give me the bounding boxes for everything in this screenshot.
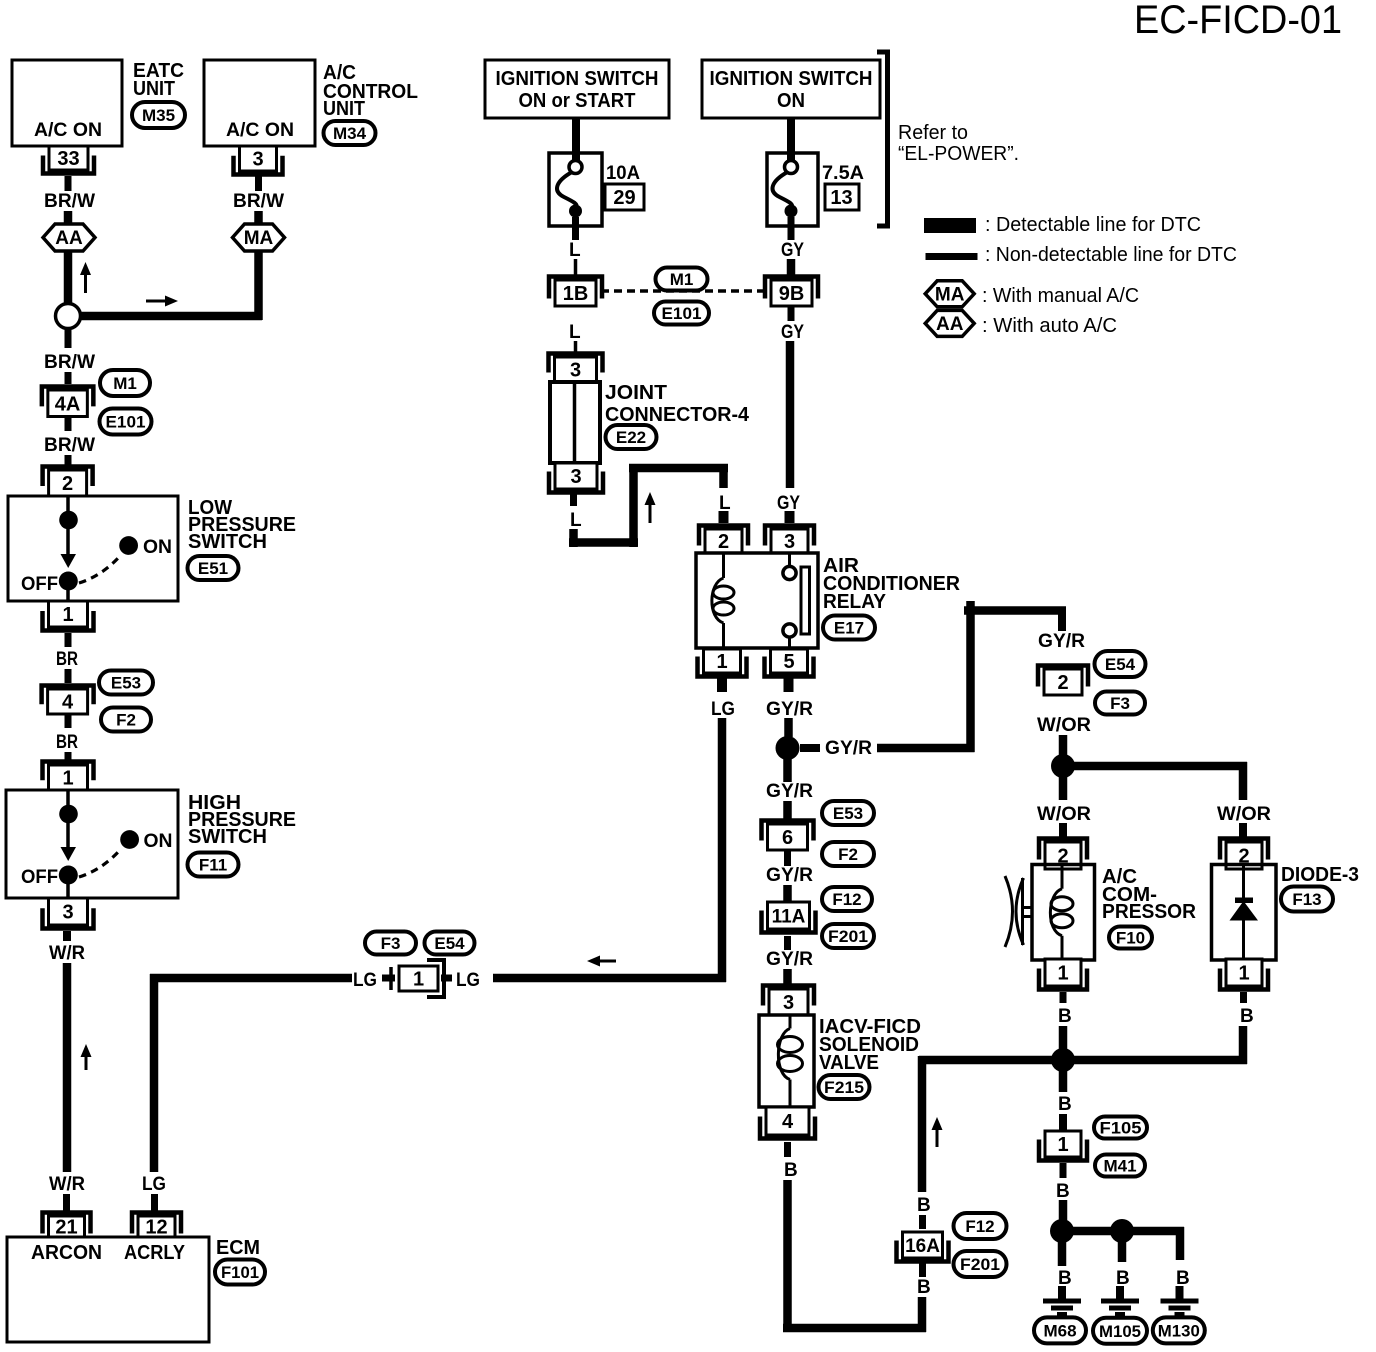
oval F3 (W/OR column) — [1095, 692, 1145, 715]
arrow right on splice wire — [146, 296, 178, 307]
wire BR to 4 — [65, 669, 72, 683]
wire L thin to 1B — [574, 259, 578, 277]
svg-text:E54: E54 — [434, 934, 465, 953]
connector 6 (E53/F2) — [762, 821, 814, 851]
unit ECM box — [7, 1237, 209, 1342]
oval F2 (at 6) — [822, 842, 874, 866]
svg-text:: With auto A/C: : With auto A/C — [982, 315, 1117, 337]
wire stub below relay pin 5 — [784, 676, 794, 692]
svg-text:13: 13 — [830, 187, 852, 209]
label GY/R (below pin 5) — [766, 699, 813, 720]
label BR/W (above LPS) — [44, 435, 95, 456]
wire W/OR diode branch down — [1239, 762, 1248, 800]
label GY/R (E54 column) — [1038, 631, 1085, 652]
oval E101 (dashed link) — [654, 302, 709, 325]
connector 1 (F105/M41) — [1039, 1131, 1087, 1161]
svg-text:3: 3 — [252, 149, 263, 171]
svg-text:GY: GY — [781, 322, 804, 343]
connector 12 (ECM ACRLY) — [132, 1213, 181, 1239]
label L (below 1B) — [569, 322, 581, 343]
svg-text:UNIT: UNIT — [133, 78, 175, 100]
wire GY long — [786, 341, 795, 488]
unit EATC UNIT box — [12, 60, 122, 146]
svg-text:29: 29 — [613, 187, 635, 209]
oval F11 — [188, 853, 239, 877]
svg-text:L: L — [569, 322, 581, 343]
svg-text:BR/W: BR/W — [44, 191, 95, 212]
svg-text:BR/W: BR/W — [44, 435, 95, 456]
label GY/R (above IACV) — [766, 949, 813, 970]
fuse number 29 box — [605, 184, 644, 210]
wire B below bus dot — [1059, 1070, 1068, 1092]
relay pin 3 connector — [765, 526, 814, 554]
wire LG horizontal right — [493, 974, 726, 983]
IACV coil — [778, 1015, 803, 1107]
oval M68 — [1034, 1317, 1086, 1343]
wire ground column 3 down — [1176, 1227, 1185, 1260]
svg-text:M68: M68 — [1043, 1321, 1076, 1340]
fuse number 13 box — [825, 184, 859, 210]
ground symbol M68 — [1043, 1286, 1081, 1314]
svg-text:M105: M105 — [1099, 1322, 1141, 1341]
svg-text:B: B — [784, 1160, 798, 1181]
svg-text:LG: LG — [456, 970, 480, 991]
wire L thin to joint connector — [574, 341, 578, 356]
wire W/OR below dot — [1059, 776, 1068, 800]
connector 1 (compressor) — [1039, 959, 1087, 990]
label W/R (lower) — [49, 1174, 85, 1195]
wire BR below 4 — [65, 714, 72, 728]
wire ground column 2 down — [1118, 1241, 1127, 1262]
wire B stub to F105 connector — [1059, 1114, 1067, 1132]
svg-text:W/OR: W/OR — [1037, 715, 1091, 736]
svg-text:E22: E22 — [616, 428, 646, 447]
svg-text:A/C ON: A/C ON — [34, 120, 102, 141]
svg-text:LG: LG — [142, 1174, 166, 1195]
oval M34 — [324, 121, 376, 145]
node B bus dot — [1051, 1048, 1075, 1072]
note Refer to EL-POWER — [898, 122, 1019, 165]
fuse 10A box — [549, 153, 602, 226]
svg-text:RELAY: RELAY — [823, 591, 887, 613]
oval M1 (dashed link) — [656, 268, 708, 291]
svg-text:SWITCH: SWITCH — [188, 826, 267, 848]
svg-text:L: L — [719, 493, 731, 514]
label LG (above 12) — [142, 1174, 166, 1195]
svg-text:“EL-POWER”.: “EL-POWER”. — [898, 143, 1019, 165]
wire B 16A column upper — [918, 1056, 927, 1192]
wire stub right of link connector — [441, 975, 452, 982]
svg-text:BR/W: BR/W — [233, 191, 284, 212]
svg-text:4A: 4A — [55, 393, 81, 415]
svg-text:M35: M35 — [142, 106, 175, 125]
label B (ground 2) — [1116, 1268, 1130, 1289]
wire to connector 2 — [65, 455, 72, 467]
wire below fuse 29 — [572, 217, 579, 240]
oval F105 — [1094, 1117, 1147, 1139]
svg-text:IGNITION SWITCH: IGNITION SWITCH — [710, 68, 873, 90]
svg-text:IGNITION SWITCH: IGNITION SWITCH — [496, 68, 659, 90]
svg-text:F10: F10 — [1116, 928, 1145, 947]
svg-text:SWITCH: SWITCH — [188, 531, 267, 553]
legend non-detectable text — [985, 244, 1237, 266]
arrow up (W/R) — [81, 1044, 92, 1070]
arrow up (B column) — [932, 1117, 943, 1147]
component LOW PRESSURE SWITCH box — [8, 496, 178, 601]
svg-text:21: 21 — [55, 1217, 77, 1239]
svg-text:M1: M1 — [670, 270, 694, 289]
oval E101 (at 4A) — [100, 409, 152, 435]
wire B diode to bus — [1239, 1026, 1248, 1064]
svg-text:4: 4 — [62, 692, 74, 714]
svg-text:F2: F2 — [116, 710, 136, 729]
svg-text:BR: BR — [56, 732, 78, 753]
label 7.5A — [822, 163, 864, 184]
wire L route down to pin 2 — [719, 464, 728, 488]
compressor body — [1032, 865, 1095, 961]
oval M105 — [1093, 1318, 1147, 1344]
label ON (LPS) — [143, 537, 172, 558]
relay contact — [783, 553, 810, 648]
svg-text:: Non-detectable line for DTC: : Non-detectable line for DTC — [985, 244, 1237, 266]
svg-text:AA: AA — [55, 228, 83, 249]
wire to 4A — [65, 372, 72, 384]
oval F3 (LG link) — [365, 932, 416, 955]
wire BR to 1 — [65, 752, 72, 762]
wire GY/R vertical up — [966, 601, 975, 752]
label BR (upper) — [56, 649, 78, 670]
wire B below IACV long — [783, 1180, 792, 1332]
svg-text:OFF: OFF — [21, 574, 58, 595]
svg-text:UNIT: UNIT — [323, 98, 365, 120]
svg-text:ON or START: ON or START — [519, 90, 636, 112]
wire AA to splice — [64, 250, 73, 304]
label EATC UNIT — [133, 60, 184, 100]
wire GY/R pin5 to splice — [784, 718, 793, 737]
wire B stub below IACV — [784, 1142, 791, 1157]
wire ign1 to fuse — [572, 118, 580, 160]
wire BR/W to AA — [64, 211, 73, 225]
relay body (air conditioner relay) — [696, 553, 818, 648]
relay coil — [712, 553, 734, 648]
connector 2 (diode) — [1220, 839, 1268, 870]
svg-text:B: B — [917, 1277, 931, 1298]
legend MA text — [982, 285, 1139, 307]
wire L route vertical up — [629, 464, 638, 547]
label GY (below 9B) — [781, 322, 804, 343]
svg-text:1: 1 — [1238, 963, 1249, 985]
svg-text:3: 3 — [784, 531, 795, 553]
label GY/R (above 11A) — [766, 865, 813, 886]
label W/OR (below 2) — [1037, 715, 1091, 736]
wire GY stub below 9B — [788, 306, 795, 321]
oval F201 (at 16A) — [954, 1251, 1007, 1277]
node GY/R splice dot — [776, 736, 800, 760]
svg-text:5: 5 — [783, 651, 794, 673]
oval E22 — [606, 425, 657, 449]
connector 11A (F12/F201) — [762, 902, 816, 933]
label B (compressor) — [1058, 1006, 1072, 1027]
wire W/OR to dot — [1059, 735, 1068, 757]
wire W/R stub — [63, 931, 71, 941]
oval E54 (LG link) — [425, 932, 475, 955]
connector 1 (above HPS) — [43, 762, 94, 791]
relay pin 2 connector — [699, 526, 748, 554]
arrow up (L route) — [645, 492, 656, 523]
svg-text:F201: F201 — [960, 1255, 1000, 1274]
label IACV-FICD SOLENOID VALVE — [819, 1016, 921, 1074]
svg-text:12: 12 — [145, 1217, 167, 1239]
legend hex AA — [925, 310, 974, 336]
wire W/OR stub to compressor pin 2 — [1059, 823, 1067, 840]
label ON (HPS) — [144, 831, 173, 852]
svg-text:F201: F201 — [828, 927, 868, 946]
svg-text:LG: LG — [353, 970, 377, 991]
connector 4 (E53/F2) — [42, 686, 94, 715]
label B (ground 3) — [1176, 1268, 1190, 1289]
label LG (right of link) — [456, 970, 480, 991]
svg-text:E53: E53 — [833, 804, 863, 823]
svg-text:BR: BR — [56, 649, 78, 670]
wire ground dot2 to corner — [1132, 1227, 1184, 1236]
label B (below F105) — [1056, 1181, 1070, 1202]
svg-text:GY/R: GY/R — [766, 865, 813, 886]
label B (ground 1) — [1058, 1268, 1072, 1289]
wire GY/R below dot — [783, 759, 792, 782]
svg-text:2: 2 — [62, 473, 73, 495]
wire W/OR horizontal to diode branch — [1072, 762, 1247, 771]
wire B bus horizontal — [919, 1056, 1247, 1065]
svg-text:F3: F3 — [381, 934, 401, 953]
svg-text:ON: ON — [144, 831, 173, 852]
svg-text:MA: MA — [244, 228, 274, 249]
svg-text:1B: 1B — [563, 283, 589, 305]
label OFF (LPS) — [21, 574, 58, 595]
oval E51 — [188, 556, 239, 580]
oval F12 (at 11A) — [822, 887, 872, 911]
svg-text:1: 1 — [62, 604, 73, 626]
svg-text:10A: 10A — [606, 163, 640, 184]
oval F12 (at 16A) — [954, 1213, 1007, 1239]
switch internals HPS — [59, 790, 139, 898]
svg-text:F12: F12 — [832, 890, 861, 909]
oval M41 — [1095, 1155, 1145, 1177]
svg-text:F2: F2 — [838, 845, 858, 864]
label B (above F105) — [1058, 1094, 1072, 1115]
label AIR CONDITIONER RELAY — [823, 555, 961, 613]
label DIODE-3 — [1281, 864, 1359, 886]
connector 1 (diode) — [1220, 959, 1268, 990]
svg-text:3: 3 — [570, 466, 581, 488]
svg-text:ON: ON — [143, 537, 172, 558]
svg-text:Refer to: Refer to — [898, 122, 968, 144]
wire GY to 9B — [787, 259, 796, 277]
connector 3 (joint connector top) — [549, 354, 603, 383]
svg-text:1: 1 — [1057, 1134, 1068, 1156]
wire BR below LPS — [65, 633, 72, 647]
svg-text:E53: E53 — [111, 673, 141, 692]
svg-text:W/R: W/R — [49, 1174, 85, 1195]
svg-text:GY: GY — [781, 240, 804, 261]
wire BR/W stub below 33 — [65, 176, 72, 191]
wire B stub below compressor — [1060, 992, 1067, 1003]
svg-text:ARCON: ARCON — [31, 1242, 102, 1264]
wire GY/R below 11A — [784, 936, 791, 950]
title EC-FICD-01 — [1134, 0, 1342, 42]
wire ign2 to fuse — [787, 118, 795, 160]
wire B 16A column lower — [918, 1297, 927, 1332]
wire B compressor to bus — [1059, 1026, 1068, 1051]
label LOW PRESSURE SWITCH — [188, 497, 296, 553]
connector 4 (IACV) — [760, 1107, 815, 1139]
wire below splice — [65, 329, 72, 348]
svg-text:33: 33 — [57, 148, 79, 170]
label W/OR (diode) — [1217, 804, 1271, 825]
wire splice horizontal — [79, 312, 262, 321]
legend AA text — [982, 315, 1117, 337]
oval E53 (at 6) — [822, 801, 874, 825]
wire dashed M1/E101 — [601, 289, 763, 293]
svg-text:16A: 16A — [905, 1236, 940, 1257]
wire ground column 1 down — [1058, 1241, 1067, 1266]
svg-text:11A: 11A — [772, 906, 806, 927]
svg-text:3: 3 — [783, 992, 794, 1014]
oval F13 — [1281, 887, 1333, 912]
label W/R (upper) — [49, 943, 85, 964]
svg-text:1: 1 — [1057, 963, 1068, 985]
oval M130 — [1153, 1317, 1205, 1343]
compressor clutch symbol — [1005, 876, 1033, 947]
wire GY/R top horizontal — [964, 606, 1066, 615]
power box IGNITION SWITCH ON or START — [485, 60, 669, 118]
diode symbol — [1230, 865, 1259, 961]
wire LG stub above 12 — [151, 1194, 158, 1211]
svg-text:3: 3 — [62, 902, 73, 924]
svg-text:B: B — [1058, 1006, 1072, 1027]
svg-text:VALVE: VALVE — [819, 1052, 879, 1074]
wire L stub to relay pin 2 — [719, 511, 729, 523]
legend non-detectable line sample — [926, 253, 978, 260]
oval E17 — [823, 616, 875, 640]
label ECM — [216, 1237, 260, 1259]
svg-text:JOINT: JOINT — [605, 382, 667, 404]
svg-text:F12: F12 — [965, 1217, 994, 1236]
svg-text:E17: E17 — [834, 618, 864, 637]
svg-text:F101: F101 — [221, 1263, 259, 1282]
unit A/C CONTROL UNIT box — [204, 60, 315, 146]
connector 1 (LG link F3/E54) — [391, 960, 444, 997]
node ground bus dot 2 — [1110, 1219, 1134, 1243]
label GY/R (right of dot) — [825, 738, 872, 759]
svg-text:ACRLY: ACRLY — [124, 1242, 186, 1264]
legend detectable text — [985, 214, 1201, 236]
oval E54 (W/OR column) — [1095, 651, 1146, 677]
label GY (below fuse 13) — [781, 240, 804, 261]
wire BR/W to MA — [254, 211, 263, 225]
label JOINT CONNECTOR-4 — [605, 382, 750, 426]
label HIGH PRESSURE SWITCH — [188, 792, 296, 848]
wire below fuse 13 — [788, 217, 795, 240]
svg-text:MA: MA — [935, 284, 965, 305]
connector 1B — [549, 277, 602, 307]
svg-text:F3: F3 — [1110, 694, 1130, 713]
svg-text:GY/R: GY/R — [825, 738, 872, 759]
arrow left (LG wire) — [587, 956, 616, 967]
svg-text:: Detectable line for DTC: : Detectable line for DTC — [985, 214, 1201, 236]
svg-text:E54: E54 — [1105, 655, 1136, 674]
svg-text:ECM: ECM — [216, 1237, 260, 1259]
svg-text:L: L — [570, 510, 582, 531]
svg-text:B: B — [1056, 1181, 1070, 1202]
label L (below joint) — [570, 510, 582, 531]
connector 2 (low pressure switch) — [43, 467, 93, 497]
label BR (lower) — [56, 732, 78, 753]
wire L route down — [569, 529, 578, 547]
wire B bottom horizontal — [783, 1324, 926, 1333]
wire below 4A — [65, 417, 72, 431]
wire GY/R dash right of dot — [800, 744, 820, 752]
label B (above 16A) — [917, 1195, 931, 1216]
svg-text:B: B — [917, 1195, 931, 1216]
compressor coil — [1050, 865, 1073, 961]
svg-text:M130: M130 — [1158, 1321, 1200, 1340]
label GY/R (above 6) — [766, 781, 813, 802]
connector 3 (below HPS) — [43, 898, 94, 929]
wire W/R stub to 21 — [63, 1194, 70, 1211]
oval F215 — [819, 1075, 870, 1099]
connector 3 (IACV) — [763, 986, 814, 1016]
wire L stub below joint — [570, 493, 577, 506]
wire LG vertical to relay pin 1 — [718, 718, 727, 982]
svg-text:ON: ON — [777, 90, 805, 112]
fuse 7.5A box — [767, 153, 818, 226]
wire GY/R to 11A — [783, 885, 792, 902]
legend detectable line sample — [924, 218, 976, 233]
diode body — [1212, 865, 1277, 961]
oval M35 — [132, 102, 185, 128]
svg-text:W/OR: W/OR — [1037, 804, 1091, 825]
svg-text:EC-FICD-01: EC-FICD-01 — [1134, 0, 1342, 42]
label BR/W (A/C control) — [233, 191, 284, 212]
connector 3 (A/C control) — [234, 146, 283, 175]
svg-text:DIODE-3: DIODE-3 — [1281, 864, 1359, 886]
label L (above relay pin 2) — [719, 493, 731, 514]
arrow up (BR/W feed) — [80, 262, 91, 293]
wire B stub above 16A — [919, 1215, 926, 1229]
label W/OR (compressor) — [1037, 804, 1091, 825]
svg-text:F13: F13 — [1292, 890, 1321, 909]
svg-text:L: L — [569, 240, 581, 261]
hex MA (with manual A/C) — [233, 224, 285, 251]
wire L route top horizontal — [629, 464, 728, 473]
svg-text:2: 2 — [718, 531, 729, 553]
wire W/OR stub to diode pin 2 — [1239, 823, 1247, 840]
svg-text:F215: F215 — [824, 1078, 864, 1097]
svg-text:OFF: OFF — [21, 867, 58, 888]
wire B to ground dot 1 — [1059, 1200, 1068, 1222]
svg-text:GY/R: GY/R — [766, 781, 813, 802]
svg-text:GY: GY — [777, 493, 800, 514]
wire GY/R to 6 — [783, 801, 792, 819]
connector 2 (E54/F3) — [1038, 666, 1088, 696]
wire B stub below 16A — [919, 1263, 926, 1277]
label LG (below pin 1) — [711, 699, 735, 720]
wire LG vertical — [150, 974, 159, 1172]
svg-text:E101: E101 — [106, 412, 146, 431]
relay pin 5 connector — [765, 649, 814, 677]
svg-text:F11: F11 — [199, 855, 227, 874]
svg-text:F105: F105 — [1100, 1118, 1142, 1137]
